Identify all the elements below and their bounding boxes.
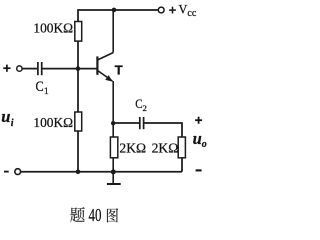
- svg-text:100KΩ: 100KΩ: [33, 115, 73, 130]
- minus input bottom: [4, 171, 9, 173]
- wire bottom rail: [21, 171, 182, 173]
- junction bottom left branch: [76, 170, 81, 175]
- resistor R3 2K emitter: [110, 137, 117, 158]
- wire left branch vertical: [78, 10, 158, 172]
- svg-text:100KΩ: 100KΩ: [33, 21, 73, 36]
- svg-text:C: C: [36, 79, 44, 95]
- svg-text:u: u: [193, 129, 202, 148]
- svg-text:40: 40: [89, 205, 102, 224]
- wire emitter to C2 branch: [113, 122, 139, 124]
- svg-text:V: V: [179, 3, 188, 17]
- svg-text:u: u: [1, 107, 10, 126]
- ground: [107, 172, 121, 184]
- svg-text:i: i: [11, 118, 14, 129]
- junction emitter C2 node: [111, 121, 115, 125]
- junction bottom ground node: [111, 169, 116, 174]
- svg-text:C: C: [135, 97, 142, 111]
- wire input to C1: [22, 68, 37, 70]
- minus output: [196, 169, 202, 171]
- caption char ti: [70, 207, 85, 222]
- capacitor C1: [38, 62, 42, 75]
- plus output: [195, 117, 202, 124]
- svg-text:T: T: [115, 63, 123, 78]
- wire C2 to load branch: [144, 123, 182, 172]
- wire C1 to base: [42, 68, 97, 70]
- caption ti 40 tu: [70, 205, 118, 225]
- plus Vcc: [169, 7, 176, 14]
- svg-text:2KΩ: 2KΩ: [119, 141, 146, 156]
- svg-text:cc: cc: [187, 8, 196, 19]
- junction base node: [76, 66, 81, 71]
- capacitor C2: [140, 117, 144, 129]
- svg-text:2KΩ: 2KΩ: [152, 141, 179, 156]
- caption char tu: [107, 208, 118, 222]
- resistor R2 100K lower bias: [75, 112, 82, 131]
- resistor R1 100K upper bias: [75, 22, 82, 42]
- terminal input bottom: [15, 169, 21, 175]
- terminal Vcc: [158, 7, 164, 13]
- junction top rail: [112, 8, 117, 13]
- resistor R4 2K load: [178, 137, 185, 158]
- transistor T: [97, 10, 113, 172]
- svg-text:1: 1: [44, 87, 49, 97]
- terminal input top: [17, 66, 22, 71]
- plus input top: [3, 65, 10, 72]
- svg-text:o: o: [202, 139, 207, 150]
- svg-text:2: 2: [143, 103, 147, 113]
